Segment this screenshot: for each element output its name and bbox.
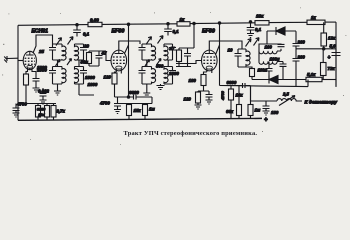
ground (under 0,1) [247,34,254,38]
transformer T2 trimmer arrows top [146,37,152,45]
svg-text:0,1: 0,1 [83,32,90,37]
svg-text:500: 500 [156,64,164,69]
svg-text:100: 100 [265,45,273,50]
svg-text:2,7к: 2,7к [56,109,66,114]
tube U1 ECH81 [23,29,48,71]
svg-text:100: 100 [271,110,279,115]
wire to EF80 grid [106,51,111,61]
svg-text:Тракт УПЧ стереофонического пр: Тракт УПЧ стереофонического приемника. [124,130,258,137]
wire cathode network bottom [18,103,56,105]
diode D2 [252,76,306,84]
tube U3 EF89 [202,29,218,73]
wire right vertical rail [335,22,337,87]
wire EF80 anode to T2 [119,41,140,50]
diode D1 [267,27,296,35]
resistor 1m (detector load) [248,105,253,116]
wire detector chain vertical [295,31,297,43]
capacitor (T3 sec upper) [267,44,285,51]
wire ECH81 anode to T1 [33,35,53,53]
capacitor (T3 sec lower) [277,62,287,80]
svg-text:EF89: EF89 [202,29,215,35]
svg-text:2,5: 2,5 [282,92,289,97]
wire T2 secondary link and ground [161,60,169,86]
resistor 10k (series, top rail) [255,21,269,25]
wire detector bottom [220,80,309,87]
wire bottom plus bus [18,118,262,120]
svg-text:6800: 6800 [129,90,139,95]
wire EF89 cathode [204,72,212,75]
paper specks [2,8,346,145]
T2 primary FM tank: capacitor + coil [139,44,152,60]
svg-text:1м: 1м [149,107,155,112]
ground (output) [263,111,270,115]
wire top rail segment 5 [325,21,336,23]
resistor 1m [143,105,148,116]
wire T2 primary link [146,60,148,93]
svg-text:10к: 10к [256,14,264,19]
svg-text:4700: 4700 [99,101,110,106]
resistor 2,7k [51,106,56,118]
ground (under cathode cap) [206,100,213,104]
svg-text:25: 25 [38,49,44,54]
svg-text:+: + [264,117,268,124]
svg-text:1к: 1к [311,15,316,20]
ground (under 120) [195,105,202,109]
resistor 13k [45,106,50,118]
resistor 6800 [36,106,41,118]
ground (T2 primary) [143,93,150,97]
input terminal left [4,56,18,63]
wire top B+ rail left segment [18,24,88,27]
svg-text:+: + [328,55,331,61]
wire EF80 screen from rail [127,23,129,25]
wire EF89 anode to T3 [209,41,242,50]
wire top rail segment 3 [190,22,255,25]
wire output drop [251,86,278,101]
wire top rail segment 2 [102,23,177,26]
ground (T1 primary) [54,91,61,95]
svg-text:100н: 100н [270,57,280,62]
ground (under 4700) [114,110,121,114]
transformer T1 trimmer arrows top [56,38,62,46]
svg-text:6800: 6800 [227,80,237,85]
svg-text:К детектору: К детектору [305,100,338,106]
resistor 1k right (series, top rail) [307,20,325,24]
resistor 68k [237,105,242,116]
svg-text:0,1: 0,1 [173,29,180,34]
svg-text:0,022: 0,022 [38,89,50,94]
resistor 15k [127,105,132,116]
paper background [0,0,350,153]
svg-text:0,1: 0,1 [255,27,262,32]
wire D1 to T3 secondary [259,31,267,51]
svg-text:120: 120 [104,75,112,80]
ground (T2 secondary) [157,86,165,90]
wire T1 secondary link and bottom [79,60,94,95]
resistor 12k [321,33,327,46]
svg-text:ЕСН81: ЕСН81 [32,29,49,35]
svg-text:68к: 68к [226,109,234,114]
svg-text:12к: 12к [328,36,336,41]
resistor (T2 damping) [177,50,182,62]
svg-text:EF80: EF80 [112,29,125,35]
resistor small (T3 damping) [250,69,255,77]
transformer T2 trimmer arrows mid [145,60,150,67]
svg-text:15к: 15к [134,108,142,113]
svg-text:5,1к: 5,1к [307,72,316,77]
wire ECH81 cathode lead [26,70,36,74]
svg-text:13к: 13к [38,112,45,117]
tube U2 EF80 [111,29,127,73]
svg-text:0,68: 0,68 [90,18,99,23]
svg-text:100: 100 [189,78,197,83]
ground (under 0,022) [40,100,47,104]
resistor 1k (series, top rail) [177,22,190,26]
wire EF80 cathode [115,72,122,74]
svg-text:10: 10 [228,48,233,53]
resistor 0,68 (series, top rail) [88,22,102,26]
svg-text:1м: 1м [255,108,261,113]
resistor 72k [321,63,327,76]
wire EF89 screen/AGC vertical [218,22,220,24]
resistor ECH81 cathode [24,74,29,85]
wire screen feed EF80/T2 from rail [193,22,195,24]
svg-text:1000: 1000 [88,82,98,87]
ground (left bottom) [13,113,20,117]
svg-text:5,0: 5,0 [330,44,337,49]
wire AGC bottom [118,103,152,105]
svg-text:1000: 1000 [85,75,95,80]
svg-text:1000: 1000 [37,68,47,73]
capacitor (T2 decoupling) [176,48,194,67]
transformer T3 trimmer arrows [246,39,252,47]
EF80 grid resistor [87,53,92,64]
wire T1 primary link [57,60,59,91]
svg-text:72к: 72к [328,66,336,71]
capacitor (cathode bypass) [206,91,213,100]
svg-text:4700: 4700 [220,90,225,101]
wire top rail segment 4 [269,21,307,23]
resistor 10k (AGC) [229,89,234,100]
wire left vertical rail [17,25,19,120]
svg-text:120: 120 [184,97,192,102]
wire ECH81 grid to left rail [18,60,23,62]
svg-text:1к: 1к [180,17,185,22]
transformer T1 trimmer arrows mid [56,60,61,67]
wire mid right [296,48,336,50]
wire T2 to EF89 grid [176,61,202,64]
